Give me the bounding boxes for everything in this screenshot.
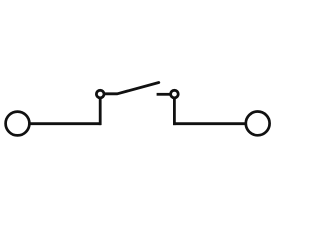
wire right vertical: [173, 98, 176, 126]
switch blade (open): [104, 83, 158, 94]
terminal contact left: [6, 112, 30, 136]
fixed contact stub: [157, 93, 171, 96]
wire right horizontal: [173, 122, 246, 125]
terminal contact right: [246, 112, 270, 136]
wire left horizontal: [29, 122, 101, 125]
wire left vertical: [99, 98, 102, 126]
switch pivot contact: [96, 90, 104, 98]
switch fixed contact: [171, 90, 179, 98]
